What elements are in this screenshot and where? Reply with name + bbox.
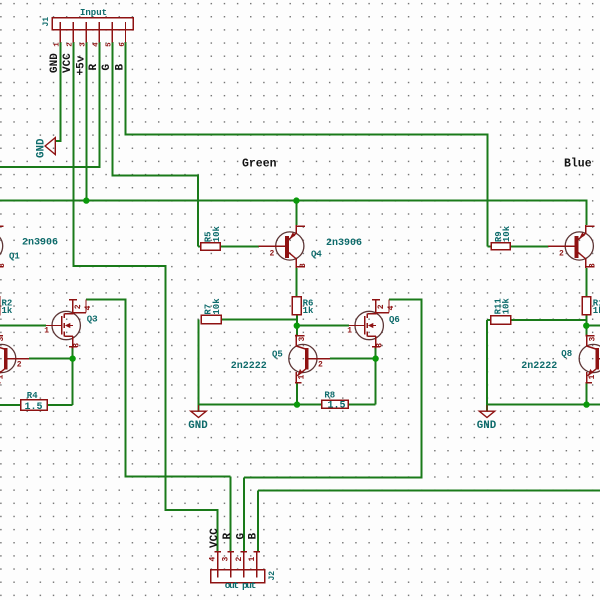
- svg-text:J2: J2: [268, 571, 277, 581]
- svg-text:2n3906: 2n3906: [326, 238, 362, 249]
- svg-text:VCC: VCC: [209, 528, 221, 548]
- svg-text:G: G: [101, 64, 113, 71]
- svg-text:5: 5: [106, 42, 114, 47]
- svg-text:3: 3: [0, 263, 7, 268]
- svg-text:R4: R4: [27, 391, 38, 401]
- svg-text:Q8: Q8: [561, 349, 572, 359]
- svg-text:3: 3: [222, 557, 231, 562]
- svg-text:3: 3: [299, 263, 308, 268]
- svg-text:GND: GND: [477, 420, 497, 432]
- svg-text:Q1: Q1: [9, 252, 20, 262]
- svg-text:2n2222: 2n2222: [521, 361, 557, 372]
- svg-text:3: 3: [73, 343, 82, 348]
- svg-text:2: 2: [559, 250, 564, 259]
- svg-text:4: 4: [209, 557, 218, 562]
- svg-text:3: 3: [80, 42, 88, 47]
- svg-text:GND: GND: [49, 53, 61, 73]
- svg-text:3: 3: [298, 337, 307, 342]
- svg-text:GND: GND: [36, 138, 48, 158]
- svg-text:10k: 10k: [502, 225, 512, 242]
- svg-text:R8: R8: [324, 391, 335, 401]
- svg-text:Blue: Blue: [564, 158, 592, 171]
- svg-text:1: 1: [44, 327, 49, 336]
- svg-text:1k: 1k: [593, 306, 600, 316]
- svg-text:Q3: Q3: [87, 315, 98, 325]
- svg-text:1.5: 1.5: [328, 400, 346, 411]
- svg-text:2n3906: 2n3906: [22, 238, 58, 249]
- svg-text:1k: 1k: [303, 306, 314, 316]
- svg-text:1: 1: [248, 557, 257, 562]
- svg-text:VCC: VCC: [62, 53, 74, 73]
- svg-text:2: 2: [270, 250, 275, 259]
- svg-text:1: 1: [588, 375, 597, 380]
- svg-text:3: 3: [0, 337, 6, 342]
- svg-text:4: 4: [93, 42, 101, 47]
- svg-text:G: G: [236, 533, 248, 540]
- svg-text:+5v: +5v: [75, 55, 87, 75]
- svg-text:2: 2: [67, 42, 75, 47]
- svg-text:1: 1: [298, 375, 307, 380]
- svg-text:R: R: [88, 64, 100, 71]
- svg-text:3: 3: [588, 337, 597, 342]
- svg-text:2: 2: [17, 361, 22, 370]
- svg-text:2: 2: [318, 361, 323, 370]
- svg-text:10k: 10k: [212, 225, 222, 242]
- svg-text:Input: Input: [80, 8, 107, 18]
- svg-text:1: 1: [54, 42, 62, 47]
- svg-text:1.5: 1.5: [25, 402, 43, 413]
- svg-text:Green: Green: [242, 158, 277, 171]
- svg-text:Q4: Q4: [311, 250, 322, 260]
- svg-text:B: B: [114, 64, 126, 71]
- svg-text:R: R: [222, 533, 234, 540]
- svg-text:2: 2: [235, 557, 244, 562]
- svg-text:out put: out put: [225, 580, 256, 591]
- svg-text:2n2222: 2n2222: [231, 361, 267, 372]
- svg-text:4: 4: [84, 305, 93, 310]
- svg-text:J1: J1: [42, 17, 51, 27]
- svg-text:3: 3: [589, 263, 598, 268]
- svg-text:1k: 1k: [2, 306, 13, 316]
- svg-text:GND: GND: [188, 420, 208, 432]
- svg-text:10k: 10k: [502, 298, 512, 315]
- svg-text:10k: 10k: [212, 298, 222, 315]
- svg-text:2: 2: [377, 304, 386, 309]
- svg-text:1: 1: [347, 327, 352, 336]
- svg-text:4: 4: [387, 305, 396, 310]
- svg-text:6: 6: [119, 42, 127, 47]
- svg-text:B: B: [247, 533, 259, 540]
- svg-text:Q5: Q5: [272, 350, 283, 360]
- svg-text:2: 2: [74, 304, 83, 309]
- svg-text:Q6: Q6: [389, 315, 400, 325]
- svg-text:1: 1: [0, 375, 5, 380]
- svg-text:3: 3: [376, 343, 385, 348]
